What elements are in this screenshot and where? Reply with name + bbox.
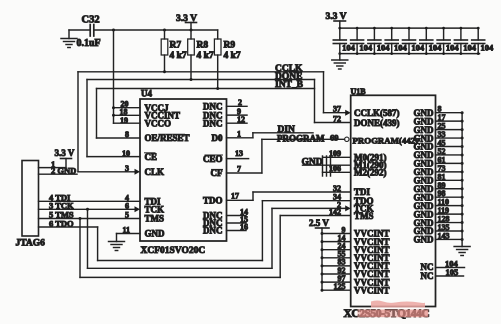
JTAG pin 6 TDO wire (39, 218, 98, 228)
IC U4 part number XCF01SVO20C (141, 246, 206, 256)
U1B pin 89 GND wire (436, 181, 463, 190)
svg-text:1: 1 (237, 130, 241, 139)
capacitor C7 (104) in bank (437, 27, 450, 55)
power 2.5V (309, 218, 329, 228)
U4 pin 18 number (120, 108, 128, 117)
value 104 label 6 (429, 43, 443, 53)
power 3.3V (top left) (176, 14, 197, 30)
U4 pin names left (145, 103, 190, 239)
mode pin tie bracket (323, 156, 331, 176)
wire TCK net (JTAG to U1B pin 2) (88, 200, 351, 268)
U1B VVCINT pin 55 wire (322, 250, 351, 259)
wire CCLK riser to U4 CLK (78, 72, 135, 172)
svg-text:10: 10 (122, 149, 130, 158)
wire INT_B bus (97, 87, 315, 90)
U1B pin 98 GND wire (436, 189, 463, 198)
value 104 label 3 (377, 43, 391, 53)
svg-text:M2(292): M2(292) (354, 168, 387, 178)
svg-text:R8: R8 (197, 41, 209, 51)
svg-text:8: 8 (125, 130, 129, 139)
svg-text:XCF01SVO20C: XCF01SVO20C (141, 246, 206, 256)
U1B pin 32 number (333, 184, 341, 193)
label C32 (82, 15, 100, 26)
ground (cap bank) (332, 54, 348, 69)
svg-text:17: 17 (231, 191, 239, 200)
U1B VVCINT pin 9 wire (322, 225, 351, 234)
svg-text:19: 19 (120, 116, 128, 125)
svg-text:PROGRAM: PROGRAM (277, 134, 325, 144)
ground (U1B right) (454, 239, 470, 255)
wire C32 to ground (69, 29, 90, 31)
wire 3.3V rail (94, 29, 218, 32)
svg-text:R9: R9 (224, 41, 236, 51)
net label GND (mode pins) (302, 157, 323, 167)
svg-text:69: 69 (330, 132, 339, 142)
svg-text:13: 13 (235, 149, 243, 158)
U1B pin 61 GND wire (436, 155, 463, 164)
connector JTAG6 body (22, 161, 39, 237)
wire CCLK to U1B pin 37 (324, 72, 351, 116)
svg-text:2 GND: 2 GND (51, 166, 76, 176)
JTAG pin 2 GND wire (39, 166, 78, 176)
wire DONE to U1B pin 72 (315, 80, 351, 123)
U1B pin 8 GND wire (436, 105, 463, 114)
svg-text:JTAG6: JTAG6 (16, 239, 46, 249)
U4 pin 3 number (125, 164, 129, 173)
U1B pin 105 NC stub (421, 267, 464, 281)
JTAG pin 4 TDI wire to U4 (39, 192, 141, 202)
value 104 label 8 (463, 43, 477, 53)
U4 pin 14 DNC stub (227, 208, 249, 217)
U1B pin 128 GND wire (436, 215, 463, 224)
U1B pin 135 GND wire (436, 223, 463, 232)
U4 pin 8 number (125, 130, 129, 139)
wire cap bank top rail (340, 27, 478, 29)
svg-text:2: 2 (238, 98, 242, 107)
wire 3.3V feed to U4 VCC pins (112, 30, 140, 123)
JTAG pin 5 TMS wire to U4 (39, 210, 141, 221)
U1B pin 119 GND wire (436, 206, 463, 215)
U1B VVCINT pin 24 wire (322, 242, 351, 251)
U1B VVCINT pin 97 wire (322, 274, 351, 283)
value 104 label 1 (342, 43, 356, 53)
svg-text:NC: NC (421, 271, 434, 281)
U1B M1 wire (303, 164, 351, 166)
resistor R9 (214, 30, 241, 89)
U1B VVCINT pin 83 wire (322, 258, 351, 267)
svg-text:12: 12 (237, 115, 245, 124)
capacitor C2 (104) in bank (351, 27, 364, 55)
power 3.3V (JTAG pin 1) (55, 148, 75, 168)
wire GND bus right (461, 111, 464, 241)
U1B pin 52 GND wire (436, 147, 463, 156)
net label CCLK (275, 64, 303, 74)
value 104 label 4 (394, 43, 408, 53)
U4 pin names right (203, 102, 223, 236)
U1B VVCINT pin 125 wire (322, 282, 351, 291)
label JTAG6 (16, 239, 46, 249)
svg-text:142: 142 (329, 207, 341, 216)
resistor R8 (188, 30, 214, 80)
U1B pin 104 NC stub (421, 259, 465, 273)
svg-text:4 k7: 4 k7 (197, 51, 214, 61)
resistor R7 (161, 30, 187, 72)
svg-text:GND: GND (145, 229, 166, 239)
power 3.3V (cap bank) (326, 12, 347, 28)
JTAG pin 1 wire (39, 159, 67, 169)
svg-text:0.1uF: 0.1uF (77, 38, 101, 49)
svg-text:6 TDO: 6 TDO (49, 218, 74, 228)
wire CCLK bus (78, 70, 324, 73)
U4 pin 16 DNC stub (227, 223, 249, 232)
U4 pin 2 DNC stub (227, 98, 248, 107)
U1B pin 81 GND wire (436, 172, 463, 181)
U1B pin 69 inversion circle (345, 137, 349, 141)
U1B pin 109 M0 wire (323, 149, 351, 158)
U1B pin 110 GND wire (436, 198, 463, 207)
value 104 label 2 (359, 43, 373, 53)
U1B pin 72 number (333, 114, 341, 123)
capacitor C8 (104) in bank (454, 27, 467, 55)
wire TMS net (JTAG to U1B pin 142) (80, 207, 351, 277)
value 0.1uF (77, 38, 101, 49)
value 104 label 7 (446, 43, 460, 53)
svg-text:104: 104 (481, 43, 495, 53)
svg-text:143: 143 (438, 231, 450, 240)
U4 pin 15 DNC stub (227, 215, 249, 224)
svg-text:C32: C32 (82, 15, 100, 26)
svg-text:TDO: TDO (203, 196, 223, 206)
capacitor C4 (104) in bank (385, 27, 398, 55)
svg-text:DNC: DNC (203, 118, 223, 128)
svg-text:CLK: CLK (145, 167, 165, 177)
svg-text:125: 125 (334, 282, 346, 291)
capacitor C32 (90, 25, 94, 37)
wire DONE bus (87, 78, 315, 81)
U1B pin 25 GND wire (436, 122, 463, 131)
svg-text:VCCO: VCCO (145, 118, 172, 128)
svg-text:VVCINT: VVCINT (354, 285, 390, 295)
U1B pin 17 GND wire (436, 113, 463, 122)
JTAG pin 3 TCK wire to U4 (39, 201, 135, 211)
svg-text:R7: R7 (170, 41, 182, 51)
svg-text:U1B: U1B (351, 87, 367, 96)
net label INT_B (275, 80, 304, 90)
capacitor C1 (104) in bank (333, 27, 346, 55)
red watermark blobs (371, 301, 425, 308)
U4 pin 11 GND wire and ground (109, 226, 141, 251)
svg-text:7: 7 (237, 164, 241, 173)
svg-text:D0: D0 (212, 133, 223, 143)
U4 pin 6 TCK arrowhead (135, 206, 141, 212)
svg-text:TMS: TMS (354, 211, 374, 221)
ground (C32) (61, 30, 77, 48)
wire TDO net (JTAG to U1B pin 34) (98, 193, 351, 261)
U4 pin 19 number (120, 116, 128, 125)
capacitor C6 (104) in bank (420, 27, 433, 55)
svg-text:6: 6 (125, 201, 129, 210)
red watermark over part number (358, 309, 429, 317)
svg-text:CCLK(587): CCLK(587) (354, 108, 400, 118)
U4 pin 3 CLK arrowhead (135, 169, 141, 175)
svg-text:3: 3 (125, 164, 129, 173)
U4 pin 13 CEO stub (227, 149, 249, 158)
wire cap bank bottom rail (340, 53, 480, 55)
U1B VVCINT pin 92 wire (322, 266, 351, 275)
capacitor C3 (104) in bank (368, 27, 381, 55)
U1B pin 106 M2 wire (323, 164, 351, 173)
U1B pin 143 GND wire (436, 231, 463, 240)
U4 pin 20 number (121, 99, 129, 108)
svg-text:105: 105 (446, 267, 459, 277)
U4 pin 1 D0 wire (net DIN) (227, 130, 314, 139)
svg-text:109: 109 (329, 149, 341, 158)
svg-text:2.5 V: 2.5 V (309, 218, 329, 228)
net label DONE (275, 72, 302, 82)
svg-text:U4: U4 (141, 89, 152, 99)
IC U1B part number XC2S50-5TQ144C (344, 308, 430, 320)
wire DONE riser to U4 CE (87, 80, 140, 157)
U1B pin 69 number (330, 132, 339, 142)
U4 pin 10 number (122, 149, 130, 158)
U4 pin 17 TDO wire to U1B TDI (227, 191, 351, 200)
U1B VVCINT pin 14 wire (322, 233, 351, 242)
svg-text:5: 5 (125, 211, 129, 220)
wire 2.5V bus (321, 228, 324, 292)
wire INT_B riser to U4 OE/RESET (97, 89, 141, 139)
svg-text:GND: GND (414, 235, 435, 245)
U1B pin 33 GND wire (436, 130, 463, 139)
capacitor C9 (104) in bank (472, 27, 485, 55)
value 104 label 9 (481, 43, 495, 53)
capacitor C5 (104) in bank (403, 27, 416, 55)
U4 pin 12 DNC stub (227, 115, 248, 124)
svg-text:11: 11 (122, 226, 130, 235)
U1B pin 73 GND wire (436, 164, 463, 173)
svg-text:TMS: TMS (145, 214, 165, 224)
IC U1B body (351, 87, 436, 307)
IC U4 body (140, 89, 227, 242)
U1B pin 37 number (333, 105, 341, 114)
svg-text:DONE(439): DONE(439) (354, 118, 400, 128)
svg-text:32: 32 (333, 184, 341, 193)
net label PROGRAM (277, 134, 325, 144)
svg-text:4 k7: 4 k7 (170, 51, 187, 61)
net label DIN (278, 125, 296, 135)
U1B pin 45 GND wire (436, 139, 463, 148)
svg-text:DNC: DNC (203, 226, 223, 236)
svg-text:106: 106 (329, 164, 341, 173)
svg-text:3.3 V: 3.3 V (55, 148, 75, 158)
U4 pin 7 CF wire to U1B PROGRAM (227, 139, 345, 173)
value 104 label 5 (411, 43, 425, 53)
U4 pin 9 DNC stub (227, 107, 248, 116)
U1B pin names left (353, 108, 419, 295)
svg-text:72: 72 (333, 114, 341, 123)
svg-text:37: 37 (333, 105, 341, 114)
svg-text:16: 16 (240, 223, 248, 232)
svg-text:4 k7: 4 k7 (224, 51, 241, 61)
svg-text:PROGRAM(442): PROGRAM(442) (353, 136, 419, 146)
svg-text:INT_B: INT_B (275, 80, 304, 90)
U1B GND pin names right (414, 108, 435, 245)
